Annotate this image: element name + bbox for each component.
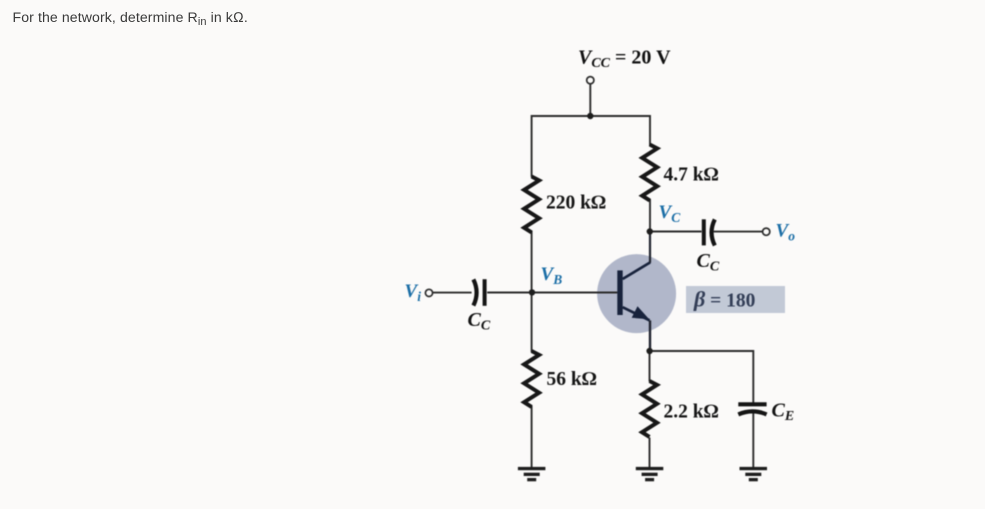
svg-text:220 kΩ: 220 kΩ: [546, 193, 606, 214]
svg-text:Vo: Vo: [776, 221, 796, 244]
svg-text:4.7 kΩ: 4.7 kΩ: [664, 165, 719, 186]
svg-text:CC: CC: [697, 250, 720, 275]
svg-text:VB: VB: [541, 264, 563, 287]
svg-text:β = 180: β = 180: [693, 287, 755, 312]
svg-text:56 kΩ: 56 kΩ: [547, 369, 597, 390]
svg-text:Vi: Vi: [405, 281, 422, 304]
svg-text:CC: CC: [468, 309, 491, 334]
svg-text:VC: VC: [659, 202, 682, 225]
svg-text:2.2 kΩ: 2.2 kΩ: [664, 402, 719, 423]
svg-text:CE: CE: [772, 400, 795, 425]
svg-text:VCC = 20 V: VCC = 20 V: [578, 47, 671, 72]
